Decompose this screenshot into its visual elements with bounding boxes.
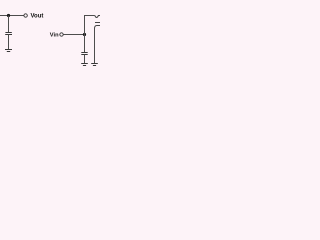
ground (right edge branch) [91, 64, 98, 66]
ground (left branch) [5, 50, 12, 52]
capacitor C2 (input branch) [81, 53, 87, 55]
wire: left vertical from junction to capacitor C1 [8, 16, 10, 33]
wire: vertical down from junction to capacitor C2 [84, 35, 86, 53]
node: junction dot on Vin wire [83, 33, 86, 36]
ground (input branch) [81, 64, 88, 66]
wire: vertical from C2 to ground [84, 55, 86, 64]
svg-text:Vout: Vout [31, 14, 44, 20]
wire: top-left horizontal to Vout terminal [0, 15, 24, 17]
wire: right edge vertical down to ground [94, 29, 96, 64]
node: junction dot on Vout wire [7, 14, 10, 17]
terminal Vin (open circle) [60, 33, 63, 36]
terminal Vout (open circle) [24, 14, 27, 17]
svg-text:Vin: Vin [50, 33, 59, 39]
inductor L1 (partially cropped at right edge) [95, 16, 100, 18]
wire: Vin horizontal to junction [63, 34, 84, 36]
wire: top-right horizontal toward inductor [84, 15, 95, 17]
capacitor C1 (left branch) [5, 33, 12, 35]
wire: left vertical from C1 to ground [8, 35, 10, 50]
wire: vertical up from junction [84, 16, 86, 35]
